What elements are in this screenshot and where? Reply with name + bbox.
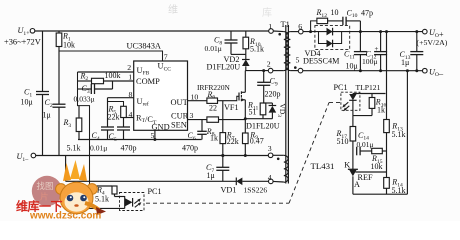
node pin 3 auxiliary [268, 144, 273, 158]
wire PC1 light arrows [342, 102, 349, 111]
watermark stamp circle [32, 176, 62, 206]
svg-text:SEN: SEN [171, 120, 187, 129]
label R3 5.1k [63, 118, 81, 153]
wire optical path dashed [146, 103, 341, 204]
label C4 0.01u [90, 131, 107, 153]
resistor R3 [76, 106, 82, 140]
wire feedback tap from +5V [386, 32, 388, 120]
watermark top faint [168, 3, 272, 19]
node pin 6 secondary [298, 22, 303, 34]
diode VD4 rectifier lower [319, 32, 342, 48]
capacitor C5 timing [117, 118, 130, 140]
pin 8 Uref lead [108, 90, 134, 99]
svg-text:PC1: PC1 [334, 83, 348, 92]
svg-text:3: 3 [268, 144, 272, 153]
node pin 4 auxiliary [268, 173, 273, 184]
terminal U1+ input positive [18, 26, 35, 37]
svg-text:10: 10 [331, 8, 339, 17]
svg-text:DE5SC4M: DE5SC4M [303, 57, 340, 66]
label COMP inside chip [136, 77, 160, 86]
resistor R11 snubber [245, 103, 272, 119]
label C9 220p [265, 77, 281, 99]
svg-text:D1FL20U: D1FL20U [207, 63, 241, 72]
capacitor C3 [78, 81, 113, 94]
wire aux return [66, 156, 237, 182]
svg-text:0.01μ: 0.01μ [90, 144, 107, 153]
svg-text:1: 1 [128, 73, 132, 82]
node FB vertical [78, 72, 90, 186]
wire drain to clamp node [244, 71, 246, 93]
label R10 5.1k [249, 37, 264, 54]
svg-text:+36~+72V: +36~+72V [4, 38, 41, 47]
svg-text:470p: 470p [182, 144, 198, 153]
label RT/CT inside chip [136, 113, 157, 126]
label VD4 DE5SC4M [303, 49, 340, 66]
opto-isolator PC1 phototransistor [70, 193, 144, 211]
pin 1 COMP lead [104, 73, 134, 82]
terminal Uo- output negative [423, 67, 444, 78]
wire source to junction [244, 100, 247, 120]
label C1 10u [21, 88, 33, 107]
wire control ground rail1 [78, 138, 202, 141]
resistor R6 gate [207, 98, 218, 103]
svg-text:51: 51 [249, 108, 257, 117]
capacitor C8 [225, 31, 246, 54]
label R4 5.1k [95, 186, 109, 204]
label C12 100u [362, 50, 377, 67]
resistor R9 current sense [243, 119, 249, 157]
capacitor C6 [197, 120, 207, 140]
label VD2 D1FL20U [207, 55, 241, 72]
terminal U1- input negative [17, 152, 36, 163]
svg-text:5.1k: 5.1k [250, 45, 264, 54]
label R14 5.1k [391, 178, 405, 196]
label output +5V/2A [417, 38, 448, 47]
svg-text:10μ: 10μ [346, 62, 358, 71]
wire top input rail [35, 30, 269, 32]
wire VCC feed to pin 7 [59, 51, 163, 61]
label R7 22k [226, 131, 239, 147]
svg-text:A: A [354, 180, 360, 189]
label R13 5.1k [391, 122, 405, 140]
svg-text:22: 22 [209, 104, 217, 113]
svg-text:47p: 47p [361, 8, 373, 17]
svg-text:6: 6 [298, 22, 302, 31]
diode VD2 clamp [242, 54, 250, 70]
svg-text:8: 8 [129, 90, 133, 99]
svg-text:5.1k: 5.1k [392, 130, 406, 139]
label C6 470p [182, 131, 198, 153]
svg-text:5: 5 [296, 56, 300, 65]
resistor R17 [350, 116, 356, 170]
label C11 10u [344, 50, 358, 71]
label C5 470p [109, 132, 137, 153]
label UCC inside chip [158, 62, 172, 73]
watermark mascot [56, 160, 106, 215]
capacitor C1 [36, 31, 49, 156]
wire VD4 package outline [315, 26, 350, 50]
wire LED anode node [353, 93, 386, 95]
svg-text:K: K [344, 161, 350, 170]
capacitor C12 electrolytic [374, 32, 387, 71]
svg-text:库: 库 [262, 6, 272, 19]
svg-text:4: 4 [129, 110, 133, 119]
svg-text:UC3843A: UC3843A [127, 42, 161, 51]
wire gate [218, 96, 240, 100]
svg-text:COMP: COMP [136, 77, 160, 86]
label TL431 K A REF [311, 161, 373, 190]
resistor R13 [384, 120, 390, 178]
svg-text:1k: 1k [377, 106, 385, 115]
label VD1 1SS226 [221, 186, 268, 195]
wire secondary top to rectifier [303, 30, 362, 33]
label IRFR220N [197, 83, 231, 92]
svg-text:22k: 22k [108, 113, 120, 122]
capacitor C14 [357, 147, 360, 156]
svg-text:+: + [375, 45, 379, 53]
svg-text:D1FL20U: D1FL20U [246, 121, 280, 130]
svg-text:220p: 220p [265, 90, 281, 99]
wire REF line [355, 171, 386, 173]
resistor R14 [384, 178, 390, 195]
svg-text:IRFR220N: IRFR220N [197, 83, 231, 92]
label R15 10k [371, 154, 383, 171]
diode VD3 [263, 103, 276, 119]
pin 10 OUT lead [188, 93, 207, 102]
svg-text:10: 10 [191, 93, 199, 102]
watermark url www.dzsc.com [29, 211, 101, 222]
svg-text:0.47: 0.47 [250, 137, 264, 146]
label VF1 [224, 103, 239, 112]
svg-text:OUT: OUT [171, 98, 188, 107]
wire PC1 receive arrows [134, 198, 141, 207]
svg-text:www.dzsc.com: www.dzsc.com [29, 211, 101, 222]
svg-text:100k: 100k [105, 71, 121, 80]
pin 5 GND lead [151, 130, 155, 140]
svg-text:22k: 22k [227, 137, 239, 146]
svg-text:5.1k: 5.1k [67, 144, 81, 153]
label C8 0.01u [205, 36, 223, 54]
label UC3843A [127, 42, 161, 51]
wire secondary feedback ground [353, 71, 408, 195]
resistor R16 [353, 94, 375, 116]
label T1 [281, 20, 290, 29]
svg-text:100μ: 100μ [362, 57, 377, 66]
node pin 5 secondary [296, 56, 303, 73]
svg-text:PC1: PC1 [148, 187, 162, 196]
svg-text:1: 1 [268, 22, 272, 31]
label C14 0.01u [357, 131, 374, 149]
svg-text:找图: 找图 [37, 181, 54, 191]
svg-text:10μ: 10μ [21, 98, 33, 107]
label R9 0.47 [249, 130, 263, 145]
label R12 10 [316, 8, 339, 19]
svg-text:CUR: CUR [171, 111, 189, 120]
label R2 100k [80, 71, 121, 82]
svg-text:1k: 1k [210, 134, 218, 143]
pin 3 CUR SEN lead [188, 111, 207, 120]
svg-text:0.01μ: 0.01μ [357, 140, 374, 149]
label R16 1k [375, 98, 387, 115]
svg-text:7: 7 [164, 53, 168, 62]
pin 2 FB lead [78, 63, 134, 72]
label input voltage +36~+72V [4, 38, 41, 47]
watermark red text weiku [16, 199, 63, 214]
resistor R1 [56, 31, 62, 51]
label R5 22k [108, 105, 120, 122]
svg-text:1μ: 1μ [207, 171, 215, 180]
svg-text:3: 3 [190, 111, 194, 120]
svg-text:5.1k: 5.1k [95, 195, 109, 204]
svg-text:470p: 470p [121, 144, 137, 153]
winding primary pins 1-2 [273, 31, 288, 71]
resistor R8 [207, 117, 245, 122]
svg-text:1μ: 1μ [43, 111, 51, 120]
diode VD1 [236, 178, 268, 186]
label PC1 [148, 187, 162, 196]
label PC1 TLP121 [334, 83, 381, 92]
wire primary ground rail2 [36, 155, 269, 157]
capacitor C7 [216, 154, 229, 181]
capacitor C13 [410, 32, 423, 71]
svg-text:510: 510 [337, 137, 349, 146]
pin 7 VCC lead [164, 53, 168, 62]
label R17 510 [336, 129, 349, 146]
svg-text:1SS226: 1SS226 [244, 186, 268, 195]
svg-text:VF1: VF1 [224, 103, 239, 112]
label R8 1k [206, 127, 218, 143]
wire +5V output rail [360, 30, 422, 33]
svg-text:VD1: VD1 [221, 186, 237, 195]
label R1 10k [62, 32, 75, 50]
svg-text:10k: 10k [63, 41, 75, 50]
winding secondary pins 6-5 [286, 32, 299, 71]
label C3 0.033u [74, 84, 95, 104]
opto-isolator PC1 LED [341, 92, 360, 115]
resistor R5 timing [108, 102, 127, 118]
svg-text:2: 2 [267, 60, 271, 69]
label UFB inside chip [137, 66, 150, 77]
label C7 1u [206, 163, 215, 180]
pin 4 RT/CT lead [124, 110, 134, 119]
resistor R4 [90, 186, 125, 197]
transformer T1 core [286, 25, 289, 184]
label C13 1u [400, 50, 411, 67]
resistor R2 [78, 78, 104, 83]
node pin 2 primary [267, 60, 273, 73]
wire drain node to primary pin 2 [245, 69, 268, 72]
label C10 47p [347, 8, 374, 19]
resistor R15 [360, 148, 387, 153]
capacitor C4 [101, 98, 114, 140]
svg-text:0.033μ: 0.033μ [74, 95, 95, 104]
svg-text:1μ: 1μ [401, 58, 409, 67]
label CUR SEN inside chip [171, 111, 189, 129]
transistor VF1 MOSFET [239, 91, 245, 101]
label OUT inside chip [171, 98, 188, 107]
resistor R12 snubber [311, 18, 343, 31]
diode VD4 rectifier upper [327, 28, 333, 36]
label C2 1u [43, 98, 53, 120]
wire secondary ground rail [303, 69, 423, 72]
svg-text:10k: 10k [371, 162, 383, 171]
resistor R10 [243, 31, 249, 54]
resistor R7 [220, 101, 226, 157]
svg-text:(+5V/2A): (+5V/2A) [417, 38, 448, 47]
capacitor C9 snubber [257, 71, 270, 103]
label Uref inside chip [137, 97, 149, 108]
label VD3 D1FL20U [246, 104, 287, 131]
svg-text:TL431: TL431 [311, 161, 335, 171]
capacitor C2 [53, 51, 66, 156]
terminal Uo+ output positive [423, 28, 444, 39]
label R6 22 [207, 90, 218, 113]
svg-text:0.01μ: 0.01μ [205, 44, 222, 53]
node pin 1 primary [268, 22, 273, 34]
label GND inside chip [152, 122, 170, 131]
svg-text:维: 维 [168, 3, 178, 16]
capacitor C11 [354, 32, 367, 71]
op-amp U1 UC3843A controller box [134, 61, 188, 130]
label R11 51 [247, 101, 258, 117]
svg-text:4: 4 [268, 173, 272, 182]
svg-text:2: 2 [127, 63, 131, 72]
winding auxiliary pins 3-4 [273, 155, 288, 182]
transistor TL431 shunt regulator [348, 169, 358, 194]
capacitor C10 snubber [343, 17, 361, 32]
svg-text:TLP121: TLP121 [356, 83, 381, 92]
